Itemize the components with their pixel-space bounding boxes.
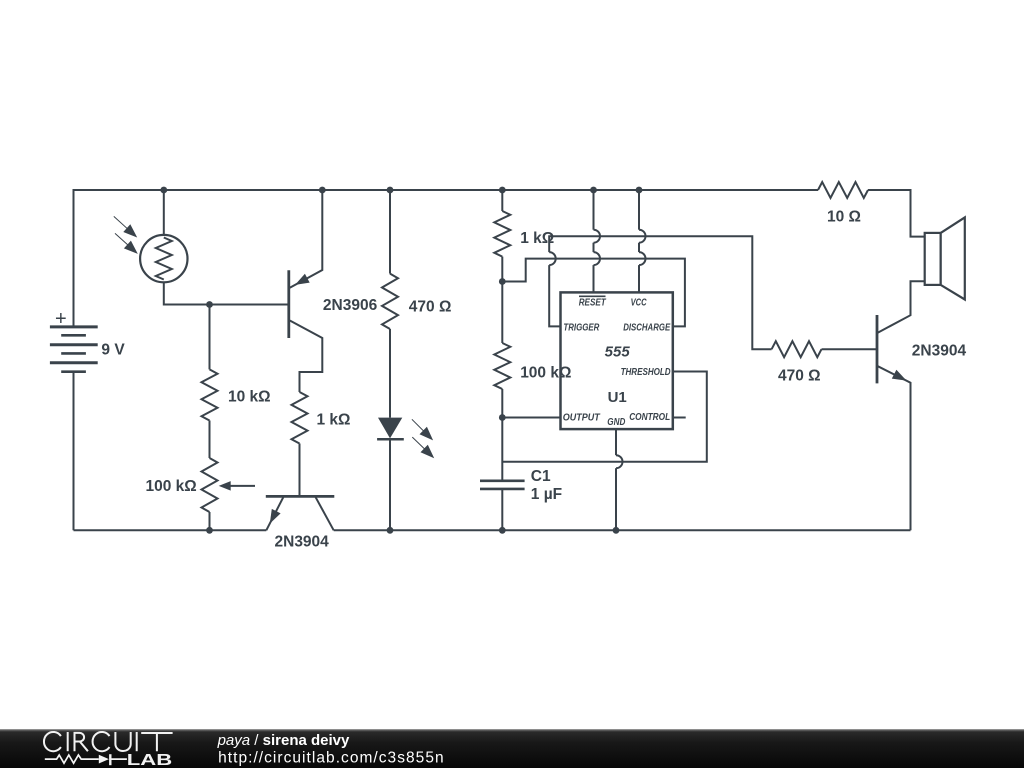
svg-text:470 Ω: 470 Ω: [409, 299, 452, 316]
svg-text:1 kΩ: 1 kΩ: [317, 412, 351, 429]
svg-text:CONTROL: CONTROL: [629, 411, 670, 423]
svg-text:DISCHARGE: DISCHARGE: [623, 321, 671, 333]
svg-text:470 Ω: 470 Ω: [778, 368, 821, 385]
svg-text:9 V: 9 V: [101, 342, 125, 359]
svg-text:10 kΩ: 10 kΩ: [228, 389, 271, 406]
svg-text:GND: GND: [607, 416, 625, 428]
svg-text:2N3904: 2N3904: [275, 533, 330, 550]
svg-text:1 kΩ: 1 kΩ: [520, 230, 554, 247]
svg-text:2N3904: 2N3904: [912, 343, 967, 360]
svg-text:C1: C1: [531, 468, 551, 485]
svg-text:100 kΩ: 100 kΩ: [146, 478, 197, 495]
svg-text:VCC: VCC: [631, 297, 647, 309]
svg-text:THRESHOLD: THRESHOLD: [621, 366, 671, 378]
svg-text:http://circuitlab.com/c3s855n: http://circuitlab.com/c3s855n: [218, 749, 444, 766]
svg-text:100 kΩ: 100 kΩ: [520, 365, 571, 382]
svg-text:OUTPUT: OUTPUT: [563, 412, 601, 424]
svg-text:1 µF: 1 µF: [531, 486, 562, 503]
svg-text:U1: U1: [608, 389, 627, 406]
svg-text:TRIGGER: TRIGGER: [563, 321, 599, 333]
svg-text:10 Ω: 10 Ω: [827, 209, 861, 226]
svg-text:+: +: [55, 308, 67, 330]
svg-text:LAB: LAB: [127, 752, 172, 768]
svg-text:2N3906: 2N3906: [323, 297, 378, 314]
svg-text:RESET: RESET: [579, 297, 607, 309]
svg-text:555: 555: [605, 343, 631, 360]
svg-text:paya / sirena deivy: paya / sirena deivy: [217, 732, 350, 749]
